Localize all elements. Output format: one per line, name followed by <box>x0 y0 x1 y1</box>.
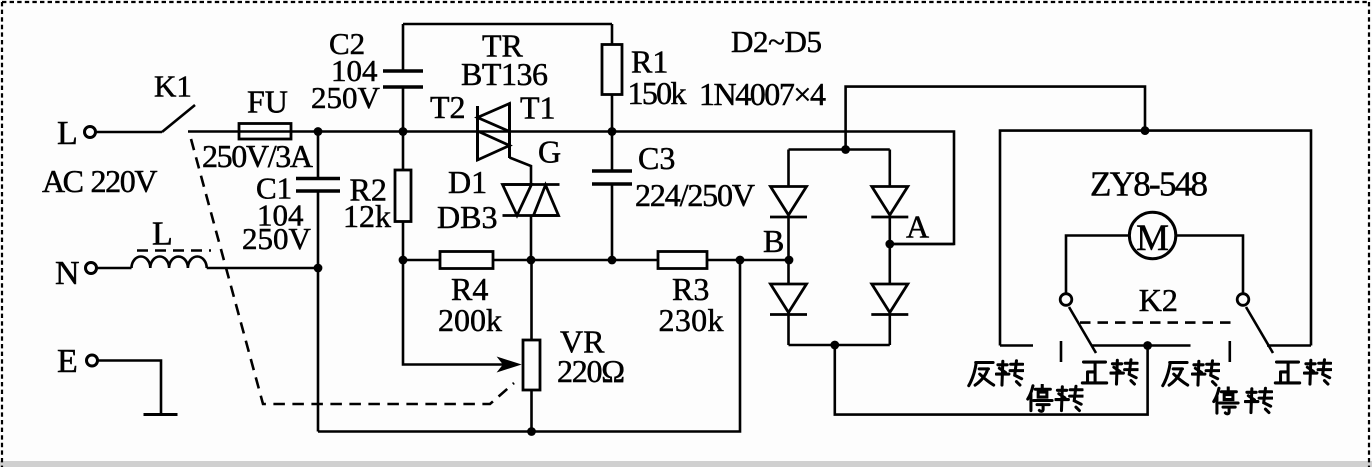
motor unit box ZY8-548 <box>1000 131 1311 346</box>
junction diac / VR top <box>527 256 536 265</box>
svg-text:ZY8-548: ZY8-548 <box>1090 165 1208 204</box>
node A junction <box>885 240 894 249</box>
label zhengzhuan 2 <box>1275 360 1331 384</box>
gate wire G <box>510 158 532 185</box>
svg-text:250V/3A: 250V/3A <box>202 138 313 174</box>
node vertical C1/N junction down <box>317 268 320 432</box>
capacitor C3 <box>611 132 614 261</box>
VR wiper wire with arrow <box>403 260 505 365</box>
svg-text:G: G <box>538 133 561 169</box>
K2 left contact <box>1060 294 1072 306</box>
wire motor right <box>1176 236 1243 294</box>
junction C2/R2 on main wire <box>399 127 408 136</box>
svg-text:T1: T1 <box>520 89 556 125</box>
fuse FU body <box>239 124 291 140</box>
diode D2 upper-left <box>771 187 807 216</box>
wire L to switch <box>96 131 162 134</box>
svg-text:1N4007×4: 1N4007×4 <box>699 76 826 112</box>
junction bridge bottom <box>830 341 839 350</box>
diode D4 lower-left <box>771 284 807 313</box>
wire node A to top rail corner <box>890 243 954 246</box>
bridge top rail <box>789 148 890 151</box>
junction R3 right / bottom return <box>736 256 745 265</box>
svg-text:220V: 220V <box>91 163 158 199</box>
resistor R3 <box>658 252 707 269</box>
triac TR right bar <box>508 103 511 158</box>
svg-text:224/250V: 224/250V <box>635 177 755 213</box>
junction bridge top <box>841 145 850 154</box>
wire E to ground <box>98 361 161 415</box>
stop position tick left <box>1060 341 1063 362</box>
junction C3 bottom <box>608 256 617 265</box>
svg-text:250V: 250V <box>242 221 312 256</box>
svg-text:250V: 250V <box>311 80 381 115</box>
bottom grey bar <box>0 461 1372 467</box>
inductor L coil <box>132 257 207 269</box>
svg-text:C3: C3 <box>638 140 675 176</box>
main top wire <box>239 132 954 245</box>
potentiometer VR <box>530 260 533 340</box>
triac upper triangle <box>478 104 510 132</box>
K2 gang dashed line <box>1080 321 1231 324</box>
svg-text:230k: 230k <box>659 302 724 338</box>
junction N line / C1 bottom <box>314 264 323 273</box>
label tingzhuan 1 <box>1028 385 1083 412</box>
wire switch to fuse <box>188 130 239 133</box>
svg-text:N: N <box>55 255 80 292</box>
label tingzhuan 2 <box>1214 387 1273 414</box>
svg-text:K2: K2 <box>1139 282 1178 318</box>
triac TR left bar <box>476 106 479 161</box>
label fanzhuan 2 <box>1163 361 1220 386</box>
diac D1 DB3 <box>503 185 560 216</box>
mid wire <box>403 259 789 262</box>
wire bridge top to motor box <box>846 87 1145 150</box>
diode D3 upper-right <box>872 187 908 216</box>
label fanzhuan 1 <box>969 361 1024 386</box>
triac lower triangle <box>478 131 510 160</box>
svg-text:T2: T2 <box>430 89 466 125</box>
capacitor C2 <box>402 24 405 132</box>
svg-text:K1: K1 <box>154 69 192 104</box>
ground <box>144 413 178 416</box>
svg-text:B: B <box>763 223 784 259</box>
motor M circle <box>1129 212 1175 258</box>
svg-text:M: M <box>1136 218 1169 259</box>
bridge bottom rail <box>789 344 890 347</box>
stop position tick right <box>1229 341 1232 362</box>
svg-text:A: A <box>906 209 929 245</box>
wire bridge bottom to K2 common <box>835 345 1148 415</box>
svg-text:BT136: BT136 <box>461 56 548 92</box>
svg-text:12k: 12k <box>343 198 391 234</box>
resistor R4 <box>440 252 493 269</box>
wire N line <box>86 263 97 274</box>
svg-text:L: L <box>152 216 173 253</box>
bottom wire <box>318 260 740 432</box>
resistor R1 <box>611 24 614 45</box>
svg-text:220Ω: 220Ω <box>557 353 625 389</box>
terminal L <box>85 127 96 138</box>
bridge right branch <box>888 150 891 346</box>
terminal E <box>87 355 98 366</box>
wire coil to node <box>207 267 318 270</box>
K2 right contact <box>1237 294 1249 306</box>
bypass wire C2/R1 top <box>403 23 612 26</box>
wire motor left <box>1066 236 1129 294</box>
junction R2 bottom / wiper branch <box>399 256 408 265</box>
svg-text:L: L <box>57 115 78 152</box>
svg-text:FU: FU <box>247 84 288 120</box>
svg-text:200k: 200k <box>438 302 502 338</box>
svg-text:150k: 150k <box>628 75 687 111</box>
switch K1 blade <box>162 105 195 132</box>
junction C1 top on main wire <box>314 127 323 136</box>
junction K2 common <box>1143 341 1152 350</box>
capacitor C1 <box>317 132 320 269</box>
node B junction <box>785 256 794 265</box>
resistor R2 <box>402 132 405 171</box>
label zhengzhuan 1 <box>1082 360 1138 384</box>
svg-text:D2~D5: D2~D5 <box>731 24 822 59</box>
svg-text:D1: D1 <box>448 164 487 200</box>
junction R1/C3 on main wire <box>608 127 617 136</box>
K2 right blade <box>1246 307 1273 353</box>
junction motor box top <box>1141 126 1150 135</box>
svg-text:AC: AC <box>42 163 84 199</box>
svg-text:E: E <box>57 343 78 380</box>
inductor core dashes <box>137 249 211 252</box>
diode D5 lower-right <box>872 284 908 313</box>
bridge left branch <box>787 150 790 346</box>
junction VR bottom <box>527 427 536 436</box>
K2 left blade <box>1069 307 1096 353</box>
svg-text:DB3: DB3 <box>437 199 497 235</box>
mechanical linkage dashed K1-VR <box>191 139 514 404</box>
